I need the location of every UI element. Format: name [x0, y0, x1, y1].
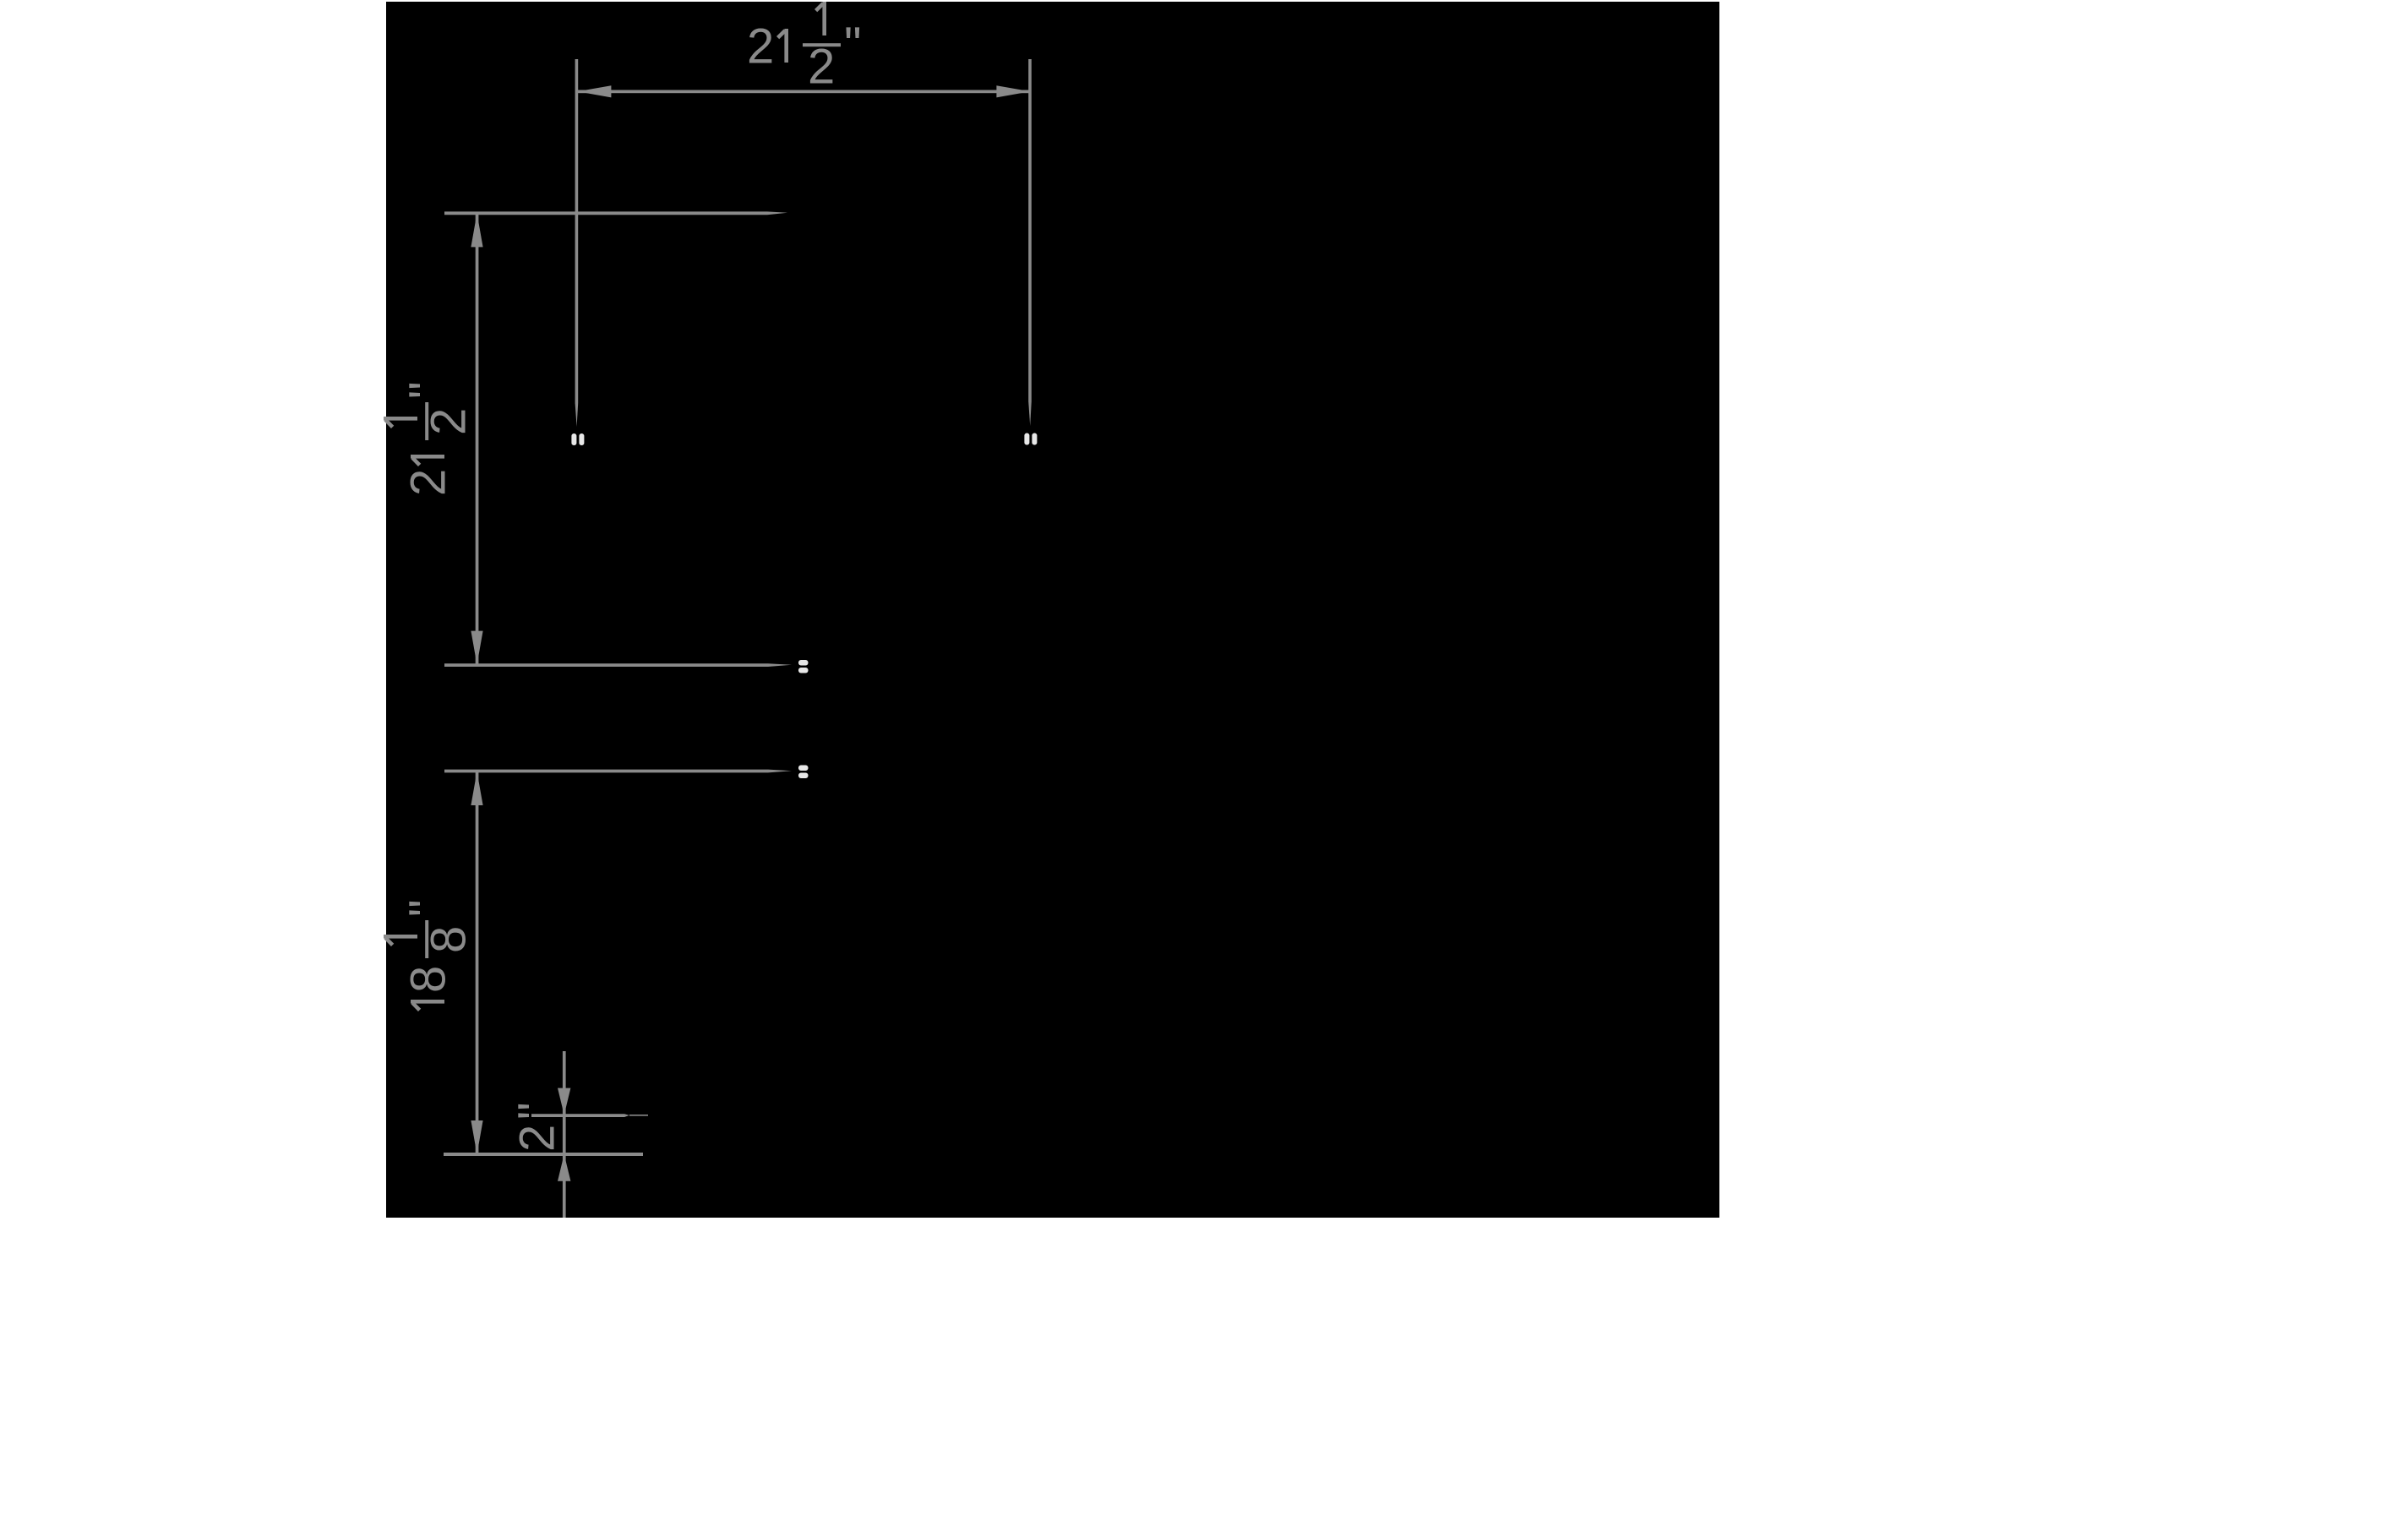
keyhole mark right-upper [798, 660, 809, 673]
arrowhead left [577, 85, 611, 97]
label 21 1/2 inch (top) [747, 2, 862, 95]
dimension line 21 1/2 horizontal [577, 90, 1031, 94]
extension line left [575, 59, 579, 427]
label 18 1/8 inch (rotated) [384, 899, 477, 1010]
svg-text:8: 8 [422, 926, 477, 953]
arrow up (18 1/8) [471, 771, 482, 805]
svg-text:2: 2 [747, 19, 774, 74]
bottom reference line [444, 1153, 643, 1156]
label 21 1/2 inch (left, rotated) [384, 381, 477, 496]
svg-text:2: 2 [808, 40, 835, 95]
label 2 inch (rotated) [509, 1102, 565, 1152]
arrow down (2in) [558, 1088, 570, 1115]
svg-text:2: 2 [401, 469, 456, 496]
svg-text:": " [400, 899, 455, 917]
dimension line vertical (21 1/2) [476, 214, 479, 664]
svg-text:2: 2 [422, 408, 477, 435]
reference line middle (upper keyhole row) [444, 663, 792, 667]
arrow up (2in) [558, 1154, 570, 1181]
keyhole mark top-right [1024, 433, 1037, 445]
dimension shaft vertical (2in) [563, 1051, 566, 1218]
svg-text:8: 8 [401, 966, 456, 993]
arrow up [471, 213, 482, 247]
reference short line (2in upper) [531, 1114, 629, 1117]
svg-text:": " [844, 18, 862, 73]
thin tail of short line [629, 1115, 648, 1116]
svg-text:": " [509, 1102, 564, 1120]
arrow down [471, 631, 482, 665]
fireplace panel (black front) [386, 2, 1719, 1218]
reference line top (bracket top) [444, 211, 787, 215]
keyhole mark top-left [571, 433, 584, 445]
svg-text:2: 2 [510, 1125, 565, 1152]
dimension line vertical (18 1/8) [476, 771, 479, 1154]
reference line lower (lower keyhole row) [444, 770, 792, 773]
keyhole mark right-lower [798, 766, 809, 779]
arrow down (18 1/8) [471, 1120, 482, 1154]
extension line right [1028, 59, 1032, 426]
arrowhead right [996, 85, 1030, 97]
svg-text:": " [400, 381, 455, 399]
